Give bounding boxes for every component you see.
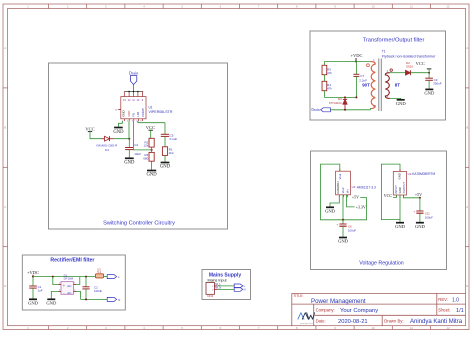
svg-text:GND: GND — [124, 160, 135, 165]
svg-text:Vout: Vout — [341, 187, 345, 193]
svg-text:Drawn By:: Drawn By: — [384, 319, 403, 324]
svg-text:VDD: VDD — [127, 111, 131, 117]
svg-text:AMS1117-3.3: AMS1117-3.3 — [357, 185, 376, 189]
svg-text:D: D — [466, 284, 468, 288]
svg-text:+3.3V: +3.3V — [356, 205, 366, 210]
svg-text:CN1: CN1 — [207, 294, 213, 298]
svg-text:10: 10 — [372, 326, 376, 330]
svg-text:2k2: 2k2 — [169, 151, 174, 155]
svg-text:LIM: LIM — [136, 111, 140, 116]
svg-text:+5V: +5V — [415, 192, 422, 197]
svg-text:+VDC: +VDC — [350, 53, 362, 58]
svg-text:B: B — [4, 126, 6, 130]
svg-text:U4: U4 — [352, 185, 356, 189]
svg-text:Anindya Kanti Mitra: Anindya Kanti Mitra — [410, 319, 463, 325]
svg-text:11: 11 — [410, 5, 413, 9]
svg-text:GND: GND — [147, 173, 158, 178]
svg-text:COMP: COMP — [141, 108, 145, 117]
svg-text:1/1: 1/1 — [456, 308, 464, 314]
svg-text:GND: GND — [160, 165, 171, 170]
svg-text:GND: GND — [338, 239, 349, 244]
svg-text:10: 10 — [372, 5, 376, 9]
svg-text:DF10M: DF10M — [64, 277, 74, 281]
svg-text:GND: GND — [396, 101, 407, 106]
svg-text:90T: 90T — [362, 82, 370, 87]
svg-text:GND: GND — [395, 224, 406, 229]
svg-text:Power Management: Power Management — [311, 298, 366, 305]
svg-text:GND: GND — [398, 173, 402, 179]
svg-text:A: A — [466, 46, 468, 50]
svg-text:Voltage Regulation: Voltage Regulation — [359, 260, 404, 266]
svg-text:SS16: SS16 — [406, 65, 413, 69]
svg-text:47k: 47k — [327, 71, 332, 75]
svg-text:Company:: Company: — [316, 307, 335, 312]
svg-text:GND: GND — [325, 209, 336, 214]
svg-text:KA78M05ERTM: KA78M05ERTM — [412, 172, 435, 176]
svg-text:GND: GND — [28, 301, 39, 306]
svg-text:100uF: 100uF — [348, 228, 356, 232]
svg-text:OUTPUT: OUTPUT — [402, 182, 406, 194]
svg-text:Mains Supply: Mains Supply — [209, 272, 241, 278]
svg-text:680: 680 — [143, 156, 148, 160]
svg-text:Your Company: Your Company — [340, 308, 378, 314]
svg-text:+: + — [337, 222, 339, 226]
svg-text:Transformer/Output filter: Transformer/Output filter — [363, 38, 425, 44]
svg-text:VIPER06LSTR: VIPER06LSTR — [149, 110, 173, 114]
svg-text:5.1: 5.1 — [97, 270, 101, 274]
svg-text:your logo here: your logo here — [300, 323, 314, 325]
svg-text:GND: GND — [113, 130, 124, 135]
svg-text:100nF: 100nF — [94, 289, 102, 293]
svg-text:D3: D3 — [338, 97, 342, 101]
svg-text:+: + — [63, 284, 65, 288]
svg-text:Mains Input: Mains Input — [208, 278, 227, 282]
svg-text:VCC: VCC — [146, 125, 155, 130]
svg-text:VCC: VCC — [384, 193, 393, 198]
svg-text:C4: C4 — [134, 143, 138, 147]
svg-text:10uF: 10uF — [134, 152, 141, 156]
svg-text:GND/ADJ: GND/ADJ — [336, 181, 340, 194]
svg-text:47k: 47k — [327, 86, 332, 90]
svg-text:GND: GND — [46, 301, 57, 306]
svg-text:Sheet:: Sheet: — [438, 307, 450, 312]
svg-text:Drain: Drain — [311, 108, 319, 112]
svg-text:GND: GND — [424, 91, 435, 96]
svg-text:2020-08-21: 2020-08-21 — [338, 319, 368, 325]
svg-text:+VDC: +VDC — [27, 270, 39, 275]
svg-text:B: B — [466, 126, 468, 130]
svg-text:8T: 8T — [395, 82, 401, 87]
svg-text:VCC: VCC — [85, 126, 94, 131]
svg-text:YM148G-CBD-R: YM148G-CBD-R — [96, 144, 118, 148]
svg-text:Drain: Drain — [129, 71, 139, 76]
svg-text:11: 11 — [410, 326, 413, 330]
svg-text:Vout: Vout — [338, 174, 342, 180]
svg-text:A: A — [4, 46, 6, 50]
svg-text:VCC: VCC — [416, 61, 425, 66]
svg-text:Vin: Vin — [345, 189, 349, 193]
svg-text:FB: FB — [132, 113, 136, 117]
svg-text:100uF: 100uF — [425, 215, 433, 219]
svg-text:D4: D4 — [105, 148, 109, 152]
svg-text:12: 12 — [446, 326, 450, 330]
svg-text:2: 2 — [59, 283, 60, 285]
svg-text:C: C — [4, 205, 6, 209]
svg-text:Date:: Date: — [316, 319, 326, 324]
svg-text:N: N — [118, 298, 120, 302]
svg-text:330uF: 330uF — [433, 81, 442, 85]
svg-text:-: - — [63, 291, 64, 295]
svg-text:4: 4 — [74, 290, 75, 292]
svg-text:REV:: REV: — [438, 297, 448, 302]
svg-text:GND: GND — [415, 224, 426, 229]
svg-text:GND: GND — [121, 110, 125, 116]
svg-text:12k: 12k — [144, 144, 149, 148]
svg-text:3: 3 — [59, 290, 60, 292]
svg-text:0.1uF: 0.1uF — [170, 137, 178, 141]
svg-text:1uF: 1uF — [38, 288, 43, 292]
svg-text:MI_N: MI_N — [215, 287, 221, 290]
svg-text:TITLE:: TITLE: — [293, 294, 303, 298]
svg-text:STTH110A: STTH110A — [329, 101, 342, 105]
svg-text:1.0: 1.0 — [452, 298, 459, 304]
svg-text:C: C — [466, 205, 468, 209]
svg-text:+5V: +5V — [352, 194, 359, 199]
svg-text:Switching Controller Circuitry: Switching Controller Circuitry — [103, 220, 175, 226]
svg-text:1: 1 — [74, 283, 75, 285]
svg-text:Rectifier/EMI filter: Rectifier/EMI filter — [50, 257, 94, 263]
svg-text:D: D — [4, 284, 6, 288]
svg-text:N: N — [244, 288, 246, 292]
svg-text:U3: U3 — [408, 172, 412, 176]
svg-text:Flyback non-isolated transform: Flyback non-isolated transformer — [382, 54, 436, 58]
svg-text:+: + — [413, 209, 415, 213]
svg-text:12: 12 — [446, 5, 450, 9]
svg-text:T1: T1 — [382, 50, 386, 54]
